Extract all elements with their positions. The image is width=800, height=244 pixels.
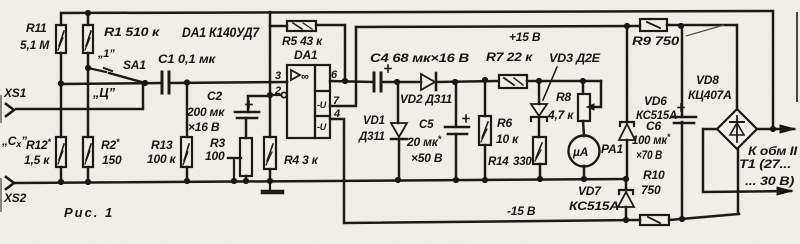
svg-text:20 мк*: 20 мк* (406, 134, 442, 149)
junction pin2 summing node (267, 92, 273, 98)
wire R5 right lead to pin6 (316, 25, 345, 81)
arrow AC terminal upper (780, 125, 795, 133)
svg-text:×50 В: ×50 В (411, 151, 443, 165)
svg-text:РА1: РА1 (601, 142, 624, 156)
capacitor C5 (electrolytic) (445, 127, 469, 134)
wire C4 right lead (382, 81, 421, 84)
wire R8 top lead (582, 81, 585, 93)
svg-text:10 к: 10 к (496, 132, 519, 146)
junction R4 bottom / ground (267, 178, 273, 184)
capacitor C2 plus sign (246, 101, 252, 108)
svg-text:2: 2 (274, 85, 281, 97)
label leader R9 (686, 25, 724, 36)
svg-text:КЦ407А: КЦ407А (688, 88, 732, 102)
wire VD1 drop top (397, 82, 400, 123)
svg-text:1,5 к: 1,5 к (24, 153, 50, 167)
capacitor C6 (electrolytic) (672, 117, 696, 123)
svg-text:R3: R3 (210, 136, 225, 150)
op-amp DA1 pin2 inversion circle (281, 92, 286, 97)
svg-text:R9 750: R9 750 (632, 34, 680, 48)
svg-text:×70 В: ×70 В (636, 148, 662, 162)
svg-text:R7 22 к: R7 22 к (486, 50, 533, 64)
svg-text:Т1 (27...: Т1 (27... (739, 157, 791, 171)
junction mid rail / VD6-VD7 (623, 176, 629, 182)
zener VD6 (619, 122, 635, 140)
wire R3 bottom lead (245, 176, 248, 181)
svg-text:R13: R13 (151, 138, 173, 152)
op-amp DA1 body (287, 65, 330, 138)
wire top rail (61, 11, 773, 129)
wire -15V rail right of R10 (669, 214, 739, 220)
svg-text:5,1 М: 5,1 М (20, 38, 50, 52)
wire R1-R2 chain (87, 53, 90, 137)
svg-text:„1”: „1” (97, 48, 115, 60)
wire pin4 to -15V bottom rail (330, 119, 640, 223)
scan artifact right edge line (796, 12, 798, 102)
svg-text:R14: R14 (488, 156, 509, 168)
resistor R6 (479, 116, 491, 145)
wire pin7 to +15V rail (330, 27, 356, 106)
diode VD2 (421, 73, 436, 90)
wire R5 left lead (270, 25, 287, 28)
svg-text:R5 43 к: R5 43 к (282, 34, 323, 48)
wire R12 bottom lead (60, 167, 63, 182)
junction R3 bottom (243, 178, 249, 184)
junction R12 bottom (58, 179, 64, 185)
svg-text:К обм II: К обм II (748, 144, 798, 158)
svg-text:VD7: VD7 (578, 184, 602, 198)
svg-text:С5: С5 (419, 119, 434, 131)
wire bridge left vertex to AC output (703, 129, 791, 192)
junction R1 top rail (85, 10, 91, 16)
svg-text:VD6: VD6 (644, 94, 667, 108)
svg-text:-U: -U (317, 122, 327, 132)
junction R8 top (580, 78, 586, 84)
wire bridge right vertex to AC output (757, 128, 794, 131)
wire R8 to PA1 (583, 121, 584, 136)
svg-text:750: 750 (641, 183, 661, 197)
svg-text:VD1: VD1 (363, 115, 385, 127)
wire +15V rail right of R9 to bridge top (667, 25, 737, 109)
op-amp DA1 amplifier symbol (291, 70, 300, 80)
wire R8 wiper loop (593, 81, 601, 107)
wire pin6 output (330, 81, 372, 82)
wire +15V rail left of R9 (356, 26, 640, 27)
svg-text:µА: µА (572, 145, 588, 159)
svg-text:SA1: SA1 (123, 58, 146, 72)
svg-text:R4 3 к: R4 3 к (284, 153, 319, 167)
junction R11-R12 tap (58, 80, 64, 86)
svg-text:„Ц”: „Ц” (92, 85, 116, 100)
svg-text:4: 4 (333, 108, 340, 120)
junction PA1 bottom (581, 176, 587, 182)
svg-text:VD8: VD8 (696, 73, 719, 87)
svg-text:R10: R10 (643, 168, 665, 182)
capacitor C4 (374, 73, 381, 91)
svg-text:С1 0,1 мк: С1 0,1 мк (158, 52, 216, 66)
wire inverting-input riser (R1 node to pin2/R4) (269, 12, 272, 137)
svg-text:200 мк: 200 мк (186, 105, 225, 119)
svg-text:R8: R8 (556, 90, 571, 104)
wire C5 riser top (455, 82, 458, 127)
junction C5 bottom (453, 177, 459, 183)
svg-text:VD2 Д311: VD2 Д311 (400, 92, 453, 106)
svg-text:100: 100 (205, 149, 225, 163)
wire VD3 top lead (538, 81, 541, 104)
resistor R11 (56, 25, 66, 53)
bridge rectifier VD8 (717, 109, 757, 149)
connector XS1 (6, 104, 14, 116)
wire R2 bottom lead (87, 167, 90, 182)
junction bridge right / top rail (770, 126, 776, 132)
junction R6 top (482, 77, 488, 83)
wire PA1 bottom lead (583, 166, 586, 179)
resistor R12 (56, 137, 66, 167)
junction R5 right / pin6 (342, 78, 348, 84)
wire pin2 stub (270, 94, 281, 96)
junction C1 right / R13 (184, 79, 190, 85)
svg-text:R1 510 к: R1 510 к (104, 25, 160, 39)
junction R6 bottom (482, 177, 488, 183)
wire R13 bottom lead (186, 167, 189, 181)
diode VD3 (531, 104, 547, 121)
svg-text:-U: -U (317, 100, 327, 110)
switch SA1 (88, 68, 145, 83)
wire C2 branch top (248, 96, 270, 112)
capacitor C1 (162, 72, 169, 93)
svg-text:R6: R6 (497, 116, 512, 130)
potentiometer R8 (578, 94, 594, 121)
junction +15V / VD6 (624, 23, 630, 29)
wire R6 top lead (484, 80, 487, 116)
capacitor C4 plus sign (385, 65, 391, 72)
resistor R7 (499, 75, 527, 88)
wire VD7 cathode lead (625, 179, 628, 190)
wire VD2 cathode to C5 node to R7 (437, 81, 497, 82)
svg-text:XS2: XS2 (3, 191, 27, 205)
connector XS2 (6, 177, 14, 189)
resistor R14 (533, 137, 546, 164)
diode VD1 (391, 123, 407, 139)
capacitor C2 (electrolytic) (235, 112, 259, 118)
resistor R1 (83, 25, 93, 53)
wire R4 bottom lead (269, 169, 272, 181)
svg-text:150: 150 (102, 153, 122, 167)
svg-text:+15 В: +15 В (509, 30, 541, 44)
wire divider line to C1 (61, 83, 161, 84)
svg-text:С6: С6 (646, 119, 661, 133)
label leader VD3 (543, 67, 557, 100)
ground symbol (263, 181, 282, 192)
wire R13 drop (186, 82, 189, 137)
resistor R10 (640, 215, 669, 225)
wire R1 top lead (87, 13, 90, 25)
wire C6 riser bottom (681, 122, 684, 219)
junction C1 left node (142, 80, 148, 86)
resistor R13 (181, 137, 192, 167)
svg-text:3: 3 (275, 70, 281, 82)
junction C6 bottom rail (679, 216, 685, 222)
wire mid common rail (16, 179, 626, 183)
junction VD7 bottom rail (623, 217, 629, 223)
junction VD1 bottom (395, 177, 401, 183)
svg-text:VD3 Д2Е: VD3 Д2Е (549, 51, 601, 65)
junction +15V / C6 (678, 23, 684, 29)
resistor R3 (240, 138, 252, 176)
junction R1 bottom / SA1 (85, 65, 91, 71)
wire VD3 to R14 (538, 118, 541, 137)
capacitor C5 plus sign (463, 115, 469, 122)
svg-text:DA1 К140УД7: DA1 К140УД7 (182, 25, 261, 40)
wire C5 riser bottom (455, 134, 458, 180)
svg-text:„Cх”: „Cх” (1, 134, 27, 149)
svg-text:Рис. 1: Рис. 1 (64, 205, 112, 220)
svg-text:С4 68 мк×16 В: С4 68 мк×16 В (370, 51, 470, 65)
junction R14 bottom (537, 176, 543, 182)
svg-text:... 30 В): ... 30 В) (745, 174, 794, 188)
wire R7 right to VD3 node to R8 node (527, 80, 601, 83)
junction C4 / VD1 (394, 79, 400, 85)
junction stub bottom (231, 178, 237, 184)
zener VD7 (618, 190, 634, 207)
wire VD6 anode to mid rail (626, 140, 629, 179)
resistor R9 (640, 19, 667, 31)
svg-text:100 к: 100 к (147, 152, 177, 166)
junction R13 bottom (184, 178, 190, 184)
resistor R5 (287, 21, 316, 31)
arrow AC terminal lower (777, 187, 792, 195)
svg-text:-15 В: -15 В (507, 204, 536, 218)
svg-text:Д311: Д311 (358, 131, 385, 143)
svg-text:100 мк*: 100 мк* (632, 132, 671, 147)
wire VD6 top lead from +15V (626, 26, 629, 122)
junction C5 top (452, 79, 458, 85)
svg-text:R11: R11 (26, 21, 47, 35)
wire C1 to pin3 (171, 82, 287, 83)
junction VD3 top (536, 78, 542, 84)
wire C2 to R3 (245, 118, 248, 138)
meter PA1 (569, 136, 600, 167)
svg-text:∞: ∞ (301, 71, 309, 83)
resistor R2 (83, 137, 93, 167)
svg-text:КС515А: КС515А (569, 201, 619, 213)
wire bridge bottom vertex to -15V rail (737, 149, 740, 213)
svg-text:DA1: DA1 (294, 48, 318, 62)
stub with bar (C2/R3 tap) (228, 158, 241, 181)
wire XS1 lead to C1 node (16, 83, 143, 109)
junction R2 bottom (85, 179, 91, 185)
svg-text:×16 В: ×16 В (188, 120, 220, 134)
svg-text:330: 330 (513, 156, 532, 168)
resistor R4 (264, 137, 276, 169)
svg-text:С2: С2 (207, 89, 222, 103)
capacitor C6 plus sign (678, 104, 684, 111)
wire R14 bottom lead (539, 164, 542, 179)
svg-text:4,7 к: 4,7 к (547, 108, 574, 122)
wire VD7 anode lead (625, 207, 628, 220)
svg-text:XS1: XS1 (3, 86, 27, 100)
wire C6 riser top (681, 26, 684, 117)
scan artifact left edge streak upper (0, 95, 2, 123)
wire R6 bottom lead (484, 145, 487, 180)
wire VD1 drop bottom (398, 140, 401, 180)
wire R11-R12 chain (60, 53, 63, 137)
scan artifact left edge streak lower (0, 178, 2, 212)
